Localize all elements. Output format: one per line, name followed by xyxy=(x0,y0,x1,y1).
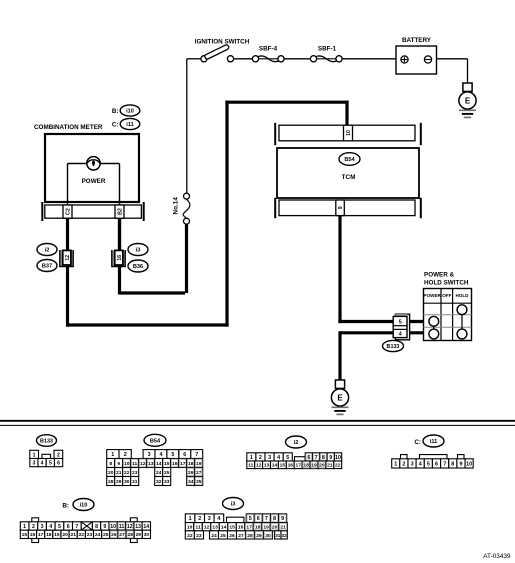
svg-text:30: 30 xyxy=(265,533,271,539)
svg-text:3: 3 xyxy=(32,461,35,467)
svg-text:B:: B: xyxy=(62,502,69,509)
svg-text:17: 17 xyxy=(246,525,252,531)
svg-text:5: 5 xyxy=(399,319,402,325)
svg-text:OFF: OFF xyxy=(442,293,451,298)
svg-text:13: 13 xyxy=(148,461,154,467)
wire: battery negative to ground xyxy=(437,58,468,60)
svg-text:20: 20 xyxy=(319,463,325,469)
svg-text:7: 7 xyxy=(315,455,318,461)
svg-text:27: 27 xyxy=(238,533,244,539)
svg-text:4: 4 xyxy=(160,452,163,458)
lamp POWER (bulb symbol) xyxy=(68,163,88,165)
svg-text:5: 5 xyxy=(171,452,174,458)
svg-text:7: 7 xyxy=(265,516,268,522)
svg-text:9: 9 xyxy=(117,461,120,467)
svg-text:2: 2 xyxy=(32,524,35,530)
ground E (battery) xyxy=(463,83,472,91)
svg-text:28: 28 xyxy=(108,479,114,485)
svg-text:TCM: TCM xyxy=(342,174,356,181)
svg-text:1: 1 xyxy=(189,516,192,522)
svg-text:30: 30 xyxy=(144,532,150,538)
connector pinout i3 xyxy=(223,498,244,510)
svg-text:13: 13 xyxy=(135,524,141,530)
svg-text:11: 11 xyxy=(196,525,201,531)
svg-text:11: 11 xyxy=(248,463,253,469)
svg-text:2: 2 xyxy=(402,461,405,467)
svg-text:9: 9 xyxy=(338,206,344,209)
svg-text:i3: i3 xyxy=(136,248,141,254)
svg-text:13: 13 xyxy=(264,463,270,469)
svg-text:8: 8 xyxy=(95,524,98,530)
svg-text:33: 33 xyxy=(164,479,170,485)
svg-text:C2: C2 xyxy=(66,208,72,215)
svg-text:4: 4 xyxy=(41,461,44,467)
svg-text:20: 20 xyxy=(62,532,68,538)
svg-text:5: 5 xyxy=(58,524,61,530)
svg-text:10: 10 xyxy=(466,461,472,467)
svg-text:BATTERY: BATTERY xyxy=(402,37,432,44)
svg-text:3: 3 xyxy=(41,524,44,530)
svg-text:1: 1 xyxy=(394,461,397,467)
svg-text:SBF-1: SBF-1 xyxy=(318,46,337,53)
svg-text:9: 9 xyxy=(460,461,463,467)
svg-text:29: 29 xyxy=(116,479,122,485)
svg-text:6: 6 xyxy=(183,452,186,458)
svg-text:3: 3 xyxy=(208,516,211,522)
svg-text:POWER &: POWER & xyxy=(424,272,455,279)
svg-text:7: 7 xyxy=(443,461,446,467)
svg-text:8: 8 xyxy=(273,516,276,522)
svg-text:B:: B: xyxy=(112,108,119,115)
svg-text:25: 25 xyxy=(164,470,170,476)
svg-text:15: 15 xyxy=(280,463,286,469)
svg-text:2: 2 xyxy=(259,455,262,461)
svg-text:B2: B2 xyxy=(118,208,124,215)
svg-text:16: 16 xyxy=(288,463,294,469)
svg-text:9: 9 xyxy=(103,524,106,530)
svg-text:22: 22 xyxy=(79,532,85,538)
svg-text:IGNITION SWITCH: IGNITION SWITCH xyxy=(195,39,250,46)
svg-text:HOLD SWITCH: HOLD SWITCH xyxy=(424,280,469,287)
svg-text:i10: i10 xyxy=(80,503,88,509)
svg-text:1: 1 xyxy=(23,524,26,530)
fusible link SBF-1 xyxy=(317,58,336,60)
svg-text:31: 31 xyxy=(132,479,138,485)
svg-text:18: 18 xyxy=(303,463,309,469)
svg-text:8: 8 xyxy=(451,461,454,467)
svg-text:1: 1 xyxy=(250,455,253,461)
svg-text:13: 13 xyxy=(212,525,218,531)
svg-text:17: 17 xyxy=(295,463,301,469)
svg-text:B133: B133 xyxy=(387,344,400,350)
svg-text:25: 25 xyxy=(103,532,109,538)
svg-text:24: 24 xyxy=(156,470,162,476)
svg-text:15: 15 xyxy=(229,525,235,531)
svg-text:B36: B36 xyxy=(133,264,143,270)
svg-text:26: 26 xyxy=(188,470,194,476)
svg-text:8: 8 xyxy=(109,461,112,467)
svg-text:12: 12 xyxy=(256,463,262,469)
svg-text:28: 28 xyxy=(247,533,253,539)
svg-text:E: E xyxy=(465,96,471,105)
svg-text:3: 3 xyxy=(148,452,151,458)
svg-text:34: 34 xyxy=(188,479,194,485)
svg-text:21: 21 xyxy=(280,525,286,531)
svg-text:4: 4 xyxy=(49,524,52,530)
wire: ignition switch to SBF-4 xyxy=(234,58,253,60)
svg-text:i11: i11 xyxy=(430,439,437,445)
svg-text:16: 16 xyxy=(172,461,178,467)
svg-text:23: 23 xyxy=(196,533,202,539)
svg-text:AT-03439: AT-03439 xyxy=(483,553,511,560)
svg-text:i2: i2 xyxy=(45,248,50,254)
svg-text:26: 26 xyxy=(111,532,117,538)
svg-text:20: 20 xyxy=(108,470,114,476)
svg-text:21: 21 xyxy=(70,532,76,538)
TCM unit box xyxy=(277,148,419,198)
svg-text:23: 23 xyxy=(87,532,93,538)
svg-text:15: 15 xyxy=(164,461,170,467)
svg-text:14: 14 xyxy=(272,463,278,469)
svg-text:4: 4 xyxy=(419,461,422,467)
svg-text:12: 12 xyxy=(65,255,71,261)
svg-text:E: E xyxy=(337,393,343,402)
connector i3 / B36 (inline) xyxy=(128,244,148,256)
svg-text:1: 1 xyxy=(33,452,36,458)
svg-text:29: 29 xyxy=(256,533,262,539)
svg-text:2: 2 xyxy=(124,452,127,458)
svg-text:18: 18 xyxy=(46,532,52,538)
svg-text:12: 12 xyxy=(127,524,133,530)
connector pinout B54 xyxy=(144,434,166,446)
svg-text:27: 27 xyxy=(196,470,202,476)
svg-text:6: 6 xyxy=(435,461,438,467)
wire: SBF-1 to battery xyxy=(342,58,396,60)
svg-text:18: 18 xyxy=(255,525,261,531)
svg-text:i2: i2 xyxy=(294,440,299,446)
svg-text:7: 7 xyxy=(75,524,78,530)
svg-text:6: 6 xyxy=(57,461,60,467)
svg-text:18: 18 xyxy=(188,461,194,467)
svg-text:19: 19 xyxy=(54,532,60,538)
svg-text:30: 30 xyxy=(124,479,130,485)
wire: ignition switch down to fuse No.14 xyxy=(186,59,188,193)
svg-text:4: 4 xyxy=(277,455,280,461)
svg-text:22: 22 xyxy=(124,470,130,476)
svg-text:i10: i10 xyxy=(126,109,134,115)
svg-text:31: 31 xyxy=(275,533,281,538)
svg-text:24: 24 xyxy=(211,533,217,539)
svg-text:B54: B54 xyxy=(150,438,161,444)
svg-text:6: 6 xyxy=(307,455,310,461)
svg-text:19: 19 xyxy=(311,463,317,469)
svg-text:2: 2 xyxy=(57,452,60,458)
svg-text:10: 10 xyxy=(124,461,130,467)
svg-text:17: 17 xyxy=(38,532,44,538)
svg-text:29: 29 xyxy=(136,532,142,538)
svg-text:20: 20 xyxy=(272,525,278,531)
svg-text:i11: i11 xyxy=(126,122,133,128)
svg-text:7: 7 xyxy=(195,452,198,458)
svg-text:5: 5 xyxy=(427,461,430,467)
svg-text:SBF-4: SBF-4 xyxy=(259,46,278,53)
svg-text:24: 24 xyxy=(95,532,101,538)
svg-text:POWER: POWER xyxy=(424,293,442,298)
wire: meter C2 down-right-up to TCM xyxy=(66,218,69,327)
svg-text:2: 2 xyxy=(198,516,201,522)
svg-text:POWER: POWER xyxy=(82,178,106,185)
svg-text:C:: C: xyxy=(112,122,119,129)
svg-text:10: 10 xyxy=(335,455,341,461)
svg-text:32: 32 xyxy=(156,479,162,485)
svg-text:1: 1 xyxy=(111,452,114,458)
svg-text:11: 11 xyxy=(132,461,137,467)
svg-text:21: 21 xyxy=(327,463,333,469)
fuse No.14 xyxy=(184,193,190,199)
svg-text:32: 32 xyxy=(282,533,288,538)
connector B133 (inline) xyxy=(395,314,409,340)
svg-text:26: 26 xyxy=(229,533,235,539)
svg-text:3: 3 xyxy=(411,461,414,467)
svg-text:16: 16 xyxy=(117,255,123,261)
svg-text:23: 23 xyxy=(132,470,138,476)
svg-text:27: 27 xyxy=(119,532,125,538)
svg-text:5: 5 xyxy=(286,455,289,461)
wire: SBF-4 to SBF-1 xyxy=(284,58,310,60)
svg-text:C:: C: xyxy=(414,439,421,446)
ground E (power-hold switch) xyxy=(335,380,344,388)
svg-text:10: 10 xyxy=(110,524,116,530)
svg-text:i3: i3 xyxy=(231,502,236,508)
separator lines xyxy=(0,420,515,422)
wire: lamp to pins C2 and B2 xyxy=(67,164,69,206)
svg-text:22: 22 xyxy=(335,463,341,469)
svg-text:19: 19 xyxy=(196,461,202,467)
wire: ignition switch feed from junction xyxy=(187,58,201,60)
svg-text:10: 10 xyxy=(346,130,352,136)
wire: TCM to power-hold switch pin 5 xyxy=(338,216,341,324)
combination meter connector strip with pins C2 and B2 xyxy=(41,202,43,221)
svg-text:10: 10 xyxy=(187,525,193,531)
svg-text:22: 22 xyxy=(187,533,193,539)
fusible link SBF-4 xyxy=(259,58,278,60)
svg-text:9: 9 xyxy=(281,516,284,522)
svg-text:4: 4 xyxy=(217,516,220,522)
svg-text:6: 6 xyxy=(67,524,70,530)
TCM bottom connector strip with pin xyxy=(274,198,276,218)
ignition switch SW xyxy=(201,56,207,62)
svg-text:HOLD: HOLD xyxy=(455,293,469,298)
TCM top connector strip with pin xyxy=(274,123,276,145)
wire: fuse No.14 to combination meter B2 xyxy=(185,224,188,293)
svg-text:14: 14 xyxy=(156,461,162,467)
svg-text:25: 25 xyxy=(220,533,226,539)
svg-text:3: 3 xyxy=(268,455,271,461)
wire: meter B2 through connector xyxy=(118,218,121,250)
svg-text:19: 19 xyxy=(263,525,269,531)
svg-text:12: 12 xyxy=(204,525,210,531)
svg-text:B37: B37 xyxy=(42,264,52,270)
svg-text:12: 12 xyxy=(140,461,146,467)
blocked cavity X (i10) xyxy=(81,522,92,530)
connector i2 / B37 (inline) xyxy=(37,244,57,256)
connector pinout B133 xyxy=(37,435,57,447)
svg-text:14: 14 xyxy=(221,525,227,531)
svg-text:B54: B54 xyxy=(344,157,355,163)
svg-text:9: 9 xyxy=(329,455,332,461)
svg-text:35: 35 xyxy=(196,479,202,485)
svg-text:14: 14 xyxy=(143,524,149,530)
svg-text:5: 5 xyxy=(249,516,252,522)
switch contacts xyxy=(461,315,463,330)
svg-text:No.14: No.14 xyxy=(172,197,179,215)
svg-text:B133: B133 xyxy=(40,439,53,445)
svg-text:6: 6 xyxy=(257,516,260,522)
svg-text:COMBINATION METER: COMBINATION METER xyxy=(34,124,103,131)
wire: power-hold switch pin 4 to ground xyxy=(340,331,424,334)
svg-text:4: 4 xyxy=(399,332,402,338)
svg-text:16: 16 xyxy=(238,525,244,531)
svg-text:16: 16 xyxy=(30,532,36,538)
svg-text:15: 15 xyxy=(22,532,28,538)
svg-text:5: 5 xyxy=(49,461,52,467)
svg-text:17: 17 xyxy=(180,461,186,467)
svg-text:11: 11 xyxy=(119,524,125,530)
svg-text:28: 28 xyxy=(127,532,133,538)
connector pinout i2 xyxy=(286,436,307,448)
svg-text:8: 8 xyxy=(322,455,325,461)
svg-text:21: 21 xyxy=(116,470,122,476)
